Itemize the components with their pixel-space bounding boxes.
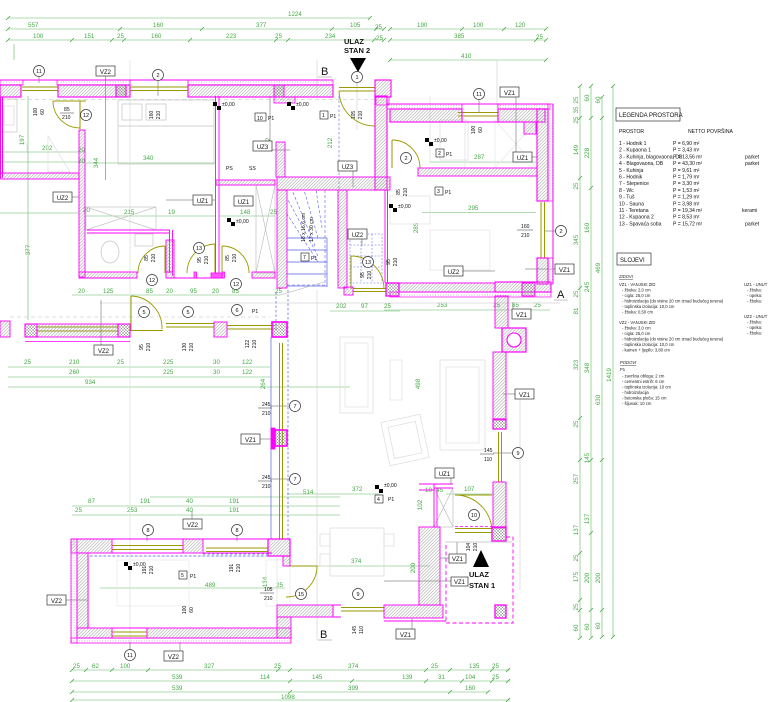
svg-text:12: 12 [233,282,239,288]
svg-text:5: 5 [142,310,145,316]
svg-text:191: 191 [229,498,240,505]
upper-right room top wall left seg [387,104,462,109]
svg-text:160: 160 [151,33,162,40]
svg-text:399: 399 [348,685,359,692]
entrance stan1 [473,550,489,567]
svg-text:UZ2: UZ2 [448,270,460,276]
svg-text:UZ2 - UNUT: UZ2 - UNUT [744,314,768,319]
right band with door15 [277,605,333,617]
svg-text:374: 374 [348,663,359,670]
svg-text:85: 85 [146,288,153,295]
bottom window blocks [112,628,147,638]
door 15 arc [286,565,317,567]
svg-text:345: 345 [573,234,580,245]
terrace window block mid [214,322,227,337]
svg-text:parket: parket [745,161,760,167]
top band insulation strips [0,80,23,85]
svg-text:- šljunak: 10 cm: - šljunak: 10 cm [622,401,652,406]
svg-text:25: 25 [573,96,580,103]
svg-text:VZ1 - VANJSKI ZID: VZ1 - VANJSKI ZID [619,282,655,287]
svg-text:- žbuka:: - žbuka: [747,331,762,336]
svg-text:191: 191 [229,507,240,514]
svg-text:25: 25 [73,663,80,670]
svg-text:160: 160 [584,222,591,233]
svg-text:110: 110 [484,457,492,463]
svg-text:NETTO POVRŠINA: NETTO POVRŠINA [688,128,734,135]
svg-text:210: 210 [358,111,364,120]
svg-text:8 - Wc: 8 - Wc [619,188,634,194]
svg-text:P1: P1 [311,256,317,262]
porch dashed outline [446,537,513,623]
svg-text:P = 3,30 m²: P = 3,30 m² [673,181,700,187]
svg-text:2 - Kupaona 1: 2 - Kupaona 1 [619,148,651,154]
svg-text:469: 469 [595,262,602,273]
svg-text:100: 100 [473,22,484,29]
stan1 top interior dashed [90,554,271,556]
sauna door arc [351,256,384,289]
svg-text:95: 95 [360,272,366,278]
svg-text:295: 295 [468,205,479,212]
svg-text:344: 344 [93,157,100,168]
thin wall left of stair top [216,180,275,185]
svg-text:160: 160 [153,22,164,29]
svg-text:STAN 2: STAN 2 [344,46,370,55]
stair right wall [338,190,347,288]
svg-text:264: 264 [260,378,267,389]
svg-text:SS: SS [249,166,256,172]
svg-text:parket: parket [745,154,760,160]
svg-text:1098: 1098 [281,694,295,701]
svg-text:245: 245 [262,475,271,481]
svg-text:190: 190 [417,22,428,29]
svg-text:191: 191 [140,498,151,505]
wall right of entrance corner [375,80,391,97]
svg-text:7: 7 [303,255,306,261]
porch small pillar [495,605,506,618]
conservatory mid pillar VZ1 [271,428,275,449]
stan1 top windows [112,546,183,550]
svg-text:6 - Hodnik: 6 - Hodnik [619,175,643,181]
svg-text:25: 25 [376,35,383,42]
wall top band mid [58,85,130,97]
top wall left corner [71,539,112,553]
svg-text:95: 95 [190,288,197,295]
wall above stairs center [277,177,390,190]
svg-text:VZ1: VZ1 [559,268,571,274]
svg-text:210: 210 [403,188,409,197]
svg-text:137: 137 [584,513,591,524]
svg-text:149: 149 [573,144,580,155]
svg-text:175: 175 [573,571,580,582]
svg-text:P1: P1 [190,574,196,580]
stair leader gray [280,282,324,295]
svg-text:VZ1: VZ1 [516,313,528,319]
svg-text:±0,00: ±0,00 [236,219,249,225]
door 10 arc [455,495,492,532]
green dim text: right columns (rotated) [573,94,613,631]
stan1 bottom-right wall band [384,605,443,618]
svg-text:B: B [321,66,328,78]
svg-text:25: 25 [573,603,580,610]
svg-text:P = 3,98 m²: P = 3,98 m² [673,201,700,207]
svg-text:210: 210 [473,543,479,552]
closet X column corridor [256,185,275,273]
svg-text:25: 25 [573,116,580,123]
svg-text:25: 25 [573,554,580,561]
svg-text:539: 539 [172,674,183,681]
svg-text:223: 223 [226,33,237,40]
svg-text:UZ1: UZ1 [517,156,529,162]
room3 faint [390,196,430,224]
room A left edge wall [1,97,3,178]
svg-text:95: 95 [139,344,145,350]
svg-text:210: 210 [189,343,195,352]
svg-text:2: 2 [404,156,407,162]
svg-text:210: 210 [151,254,157,263]
svg-text:10: 10 [257,116,263,122]
svg-text:104: 104 [466,543,472,552]
svg-text:234: 234 [325,33,336,40]
svg-text:40: 40 [186,507,193,514]
leader gridline vertical x130 [129,60,131,658]
svg-text:11: 11 [476,92,482,98]
svg-text:210: 210 [156,111,162,120]
svg-text:102: 102 [417,499,424,510]
svg-text:348: 348 [584,362,591,373]
svg-text:12: 12 [83,113,89,119]
stan1 living room faint inner boundary [89,556,277,628]
bedroom door arc (13 left) [187,244,215,273]
pillar in top band [116,85,126,97]
svg-text:- opeka:: - opeka: [747,293,762,298]
svg-text:498: 498 [415,378,422,389]
svg-text:UZ3: UZ3 [342,165,354,171]
right outer wall upper [537,109,548,201]
svg-text:210: 210 [264,596,273,602]
svg-text:210: 210 [262,484,271,490]
svg-text:104: 104 [465,674,476,681]
svg-text:SLOJEVI: SLOJEVI [620,258,645,264]
svg-text:160: 160 [465,685,476,692]
svg-text:3: 3 [437,189,440,195]
svg-text:1: 1 [322,113,325,119]
top band edge lines [0,80,333,97]
left interior vertical dims [14,44,28,320]
svg-text:P1: P1 [268,116,274,122]
sauna right thin wall [385,190,388,283]
svg-text:210: 210 [69,359,80,366]
svg-text:95: 95 [386,259,392,265]
leader horizontal y303 [100,302,560,304]
stan1 dining table [330,528,384,576]
svg-text:489: 489 [205,582,216,589]
svg-text:25: 25 [384,303,391,310]
svg-text:13 - Spavaća soba: 13 - Spavaća soba [619,221,662,227]
svg-text:372: 372 [352,486,363,493]
svg-text:85: 85 [396,189,402,195]
svg-text:- cementni estrih: 6 cm: - cementni estrih: 6 cm [622,379,665,384]
svg-text:557: 557 [28,22,39,29]
wall top band right [188,85,333,97]
svg-text:100: 100 [33,108,39,117]
svg-text:P = 1,53 m²: P = 1,53 m² [673,188,700,194]
interior wall rooms 2/3 [418,168,537,176]
svg-text:- cigla: 25,0 cm: - cigla: 25,0 cm [622,331,651,336]
bathroom2 bottom wall [79,272,137,278]
svg-text:UZ1: UZ1 [197,199,209,205]
svg-text:25: 25 [270,209,277,216]
svg-text:25: 25 [573,182,580,189]
bathroom2 fixtures [101,241,119,263]
svg-text:VZ1: VZ1 [452,557,464,563]
svg-text:5: 5 [186,310,189,316]
window top band A [22,87,58,91]
svg-text:1: 1 [355,75,358,81]
svg-text:134: 134 [262,576,269,587]
svg-text:P1: P1 [445,190,451,196]
svg-text:107: 107 [464,486,475,493]
svg-text:20: 20 [212,288,219,295]
svg-text:±0,00: ±0,00 [222,102,235,108]
svg-text:327: 327 [204,663,215,670]
svg-text:12 - Kupaona 2: 12 - Kupaona 2 [619,215,654,221]
room A sink [1,99,17,132]
svg-text:ULAZ: ULAZ [469,570,489,579]
svg-text:- žbuka:: - žbuka: [747,288,762,293]
svg-text:kerami: kerami [742,208,757,214]
svg-text:UZ1 - UNUT: UZ1 - UNUT [744,282,768,287]
svg-text:225: 225 [163,369,174,376]
svg-text:145: 145 [352,626,358,635]
svg-text:85: 85 [225,255,231,261]
svg-text:25: 25 [573,290,580,297]
svg-text:6: 6 [235,308,238,314]
svg-text:340: 340 [143,155,154,162]
svg-text:145: 145 [312,674,323,681]
svg-text:151: 151 [84,33,95,40]
svg-text:±0,00: ±0,00 [398,204,411,210]
svg-text:25: 25 [274,663,281,670]
svg-text:120: 120 [515,22,526,29]
end cap above window [493,419,506,429]
svg-text:25: 25 [117,359,124,366]
terrace low window [37,327,118,331]
conservatory bottom pillar [268,539,290,556]
svg-text:ZIDOVI: ZIDOVI [618,274,634,279]
svg-text:ULAZ: ULAZ [344,37,364,46]
svg-text:253: 253 [127,507,138,514]
UZ3 pillar top [276,142,285,177]
entrance door stan2: frame + leaf + arc [339,88,375,127]
svg-text:- toplinska izolacija: 10,0 cm: - toplinska izolacija: 10,0 cm [622,342,675,347]
svg-text:STAN 1: STAN 1 [469,581,495,590]
svg-text:12: 12 [149,278,155,284]
sauna dashed box [350,234,382,283]
green dim text: mid rows + interior [19,134,541,589]
top wall mid block [183,539,203,553]
bottom band upper apartment right [399,283,495,292]
room tags [190,114,452,580]
entry hall right vertical wall [375,96,387,190]
top dim row 1 [8,17,370,19]
svg-text:VZ2: VZ2 [100,70,112,76]
svg-text:31: 31 [438,674,445,681]
svg-text:15: 15 [298,592,304,598]
svg-text:122: 122 [242,359,253,366]
svg-text:4: 4 [377,497,380,503]
svg-text:191: 191 [142,566,148,575]
upper-right room faint furniture [430,96,465,168]
svg-text:100: 100 [471,126,477,135]
svg-text:40: 40 [186,498,193,505]
terrace low window band [25,324,37,337]
right vertical dim columns [580,86,613,638]
stan1 right low window [341,608,384,612]
gridline x520 [497,60,520,590]
svg-text:122: 122 [245,340,251,349]
terrace door arc bottom-left [131,296,163,331]
leader circle 11 top-right [39,77,479,112]
door/window size labels [33,107,530,634]
leader gridline vertical x317 [316,60,318,640]
terrace window mid [166,324,214,328]
stair wall end cap [344,287,353,295]
dashed terrace boundary [10,316,270,318]
svg-text:215: 215 [124,209,135,216]
svg-text:- žbuka:: - žbuka: [747,320,762,325]
svg-text:P = 6,90 m²: P = 6,90 m² [673,141,700,147]
svg-text:- žbuka:: - žbuka: [747,299,762,304]
green dim text: top rows [28,11,543,60]
wardrobe X hall stan1 [434,488,453,527]
svg-text:35: 35 [573,106,580,113]
window right wall vertical [541,202,545,258]
svg-text:85: 85 [64,107,70,113]
svg-text:110: 110 [359,626,365,634]
right outer wall corner low [537,258,548,284]
svg-text:P = 15,72 m²: P = 15,72 m² [673,221,703,227]
bottom dim rows [72,670,510,700]
svg-text:97: 97 [361,303,368,310]
svg-text:137: 137 [573,524,580,535]
porch right pillar [492,527,506,541]
stair left wall [277,190,287,288]
gridline x357 entrance [356,78,358,130]
svg-text:- hidroizolacija (do visine 20: - hidroizolacija (do visine 20 cm iznad … [622,299,724,304]
svg-text:25: 25 [431,663,438,670]
svg-text:210: 210 [367,271,373,280]
svg-text:- hidroizolacija: - hidroizolacija [622,390,649,395]
svg-text:30: 30 [213,359,220,366]
svg-text:105: 105 [351,111,357,120]
svg-text:25: 25 [573,420,580,427]
room2 door arc [391,140,393,168]
svg-text:- završna obloga: 2 cm: - završna obloga: 2 cm [622,374,665,379]
svg-text:P1: P1 [620,367,626,372]
svg-text:VZ1: VZ1 [519,393,531,399]
svg-text:A: A [557,289,565,301]
svg-text:- žbuka: 3,0 cm: - žbuka: 3,0 cm [622,326,651,331]
svg-text:UZ3: UZ3 [257,145,269,151]
conservatory glass line + dashes [270,337,272,539]
svg-text:60: 60 [478,127,484,133]
svg-text:5 - Kuhinja: 5 - Kuhinja [619,168,644,174]
svg-text:60: 60 [595,622,602,629]
conservatory top pillar [272,322,287,337]
svg-text:11: 11 [36,69,42,75]
svg-text:9: 9 [356,592,359,598]
pillar in bottom band right [522,283,535,296]
svg-text:UZ2: UZ2 [352,233,364,239]
svg-text:parket: parket [745,221,760,227]
svg-text:- cigla: 25,0 cm: - cigla: 25,0 cm [622,293,651,298]
svg-text:2: 2 [156,73,159,79]
svg-text:±0,00: ±0,00 [384,483,397,489]
stan1 bottom window [112,632,147,636]
svg-text:13: 13 [365,260,371,266]
svg-text:377: 377 [25,244,32,255]
svg-text:P = 9,61 m²: P = 9,61 m² [673,168,700,174]
svg-text:514: 514 [303,489,314,496]
svg-text:UZ2: UZ2 [57,196,69,202]
svg-text:PODOVI: PODOVI [620,360,637,365]
rows above stan1 lower [72,497,340,515]
window upper right room top [458,113,498,117]
bathroom2 walls [87,230,173,276]
level markers ±0,00 [133,102,447,568]
step notch below band [274,97,295,103]
svg-text:377: 377 [256,22,267,29]
svg-text:228: 228 [584,147,591,158]
svg-text:100: 100 [33,33,44,40]
svg-text:PS: PS [226,166,233,172]
svg-text:7: 7 [293,404,296,410]
bedroom left wall vertical [79,130,85,277]
svg-text:2: 2 [438,151,441,157]
top dim row 2 [8,28,546,30]
svg-text:8: 8 [146,528,149,534]
svg-text:9: 9 [516,451,519,457]
svg-text:212: 212 [327,137,334,148]
svg-text:19: 19 [168,209,175,216]
svg-text:60: 60 [584,94,591,101]
svg-text:2: 2 [559,229,562,235]
svg-text:P1: P1 [252,309,258,315]
svg-text:P = 43,30 m²: P = 43,30 m² [673,161,703,167]
svg-text:160: 160 [521,224,530,230]
svg-text:VZ1: VZ1 [504,91,516,97]
interior dim segments [86,162,550,588]
svg-text:374: 374 [351,558,362,565]
svg-text:1419: 1419 [606,368,613,382]
mid-left dim rows above stan1 [8,367,350,387]
svg-text:62: 62 [92,663,99,670]
top ticks [6,16,548,62]
svg-text:145: 145 [584,452,591,463]
bed top-left bedroom [118,100,214,164]
svg-text:210: 210 [146,343,152,352]
svg-text:- toplinska izolacija: 10,0 cm: - toplinska izolacija: 10,0 cm [622,304,675,309]
svg-text:25: 25 [536,34,543,41]
svg-text:95: 95 [197,257,203,263]
svg-text:210: 210 [393,258,399,267]
svg-text:60: 60 [573,624,580,631]
svg-text:257: 257 [573,473,580,484]
terrace furniture mid [340,337,373,413]
svg-text:±0,00: ±0,00 [296,102,309,108]
chimney box [502,328,526,352]
svg-text:10 - Sauna: 10 - Sauna [619,201,644,207]
